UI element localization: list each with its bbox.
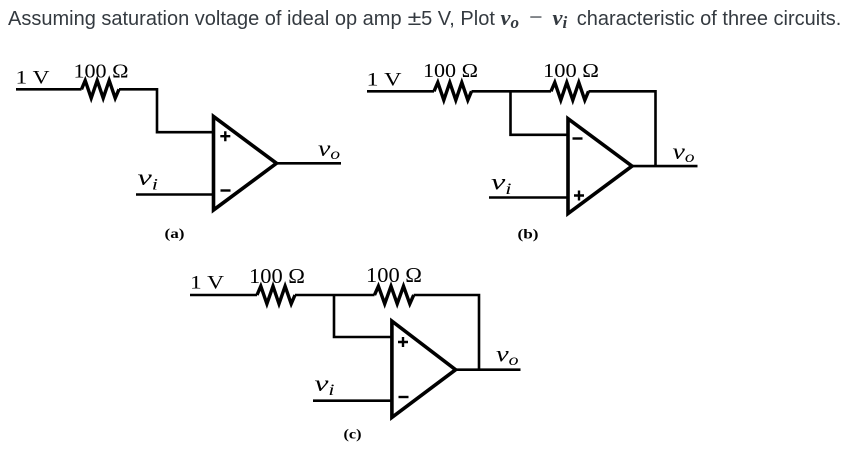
svg-text:vi: vi [491,169,512,198]
svg-text:(b): (b) [518,228,539,243]
svg-text:100 Ω: 100 Ω [74,60,129,82]
svg-text:100 Ω: 100 Ω [543,60,599,82]
svg-text:100 Ω: 100 Ω [366,263,422,287]
svg-text:(c): (c) [344,428,362,443]
svg-text:1 V: 1 V [16,68,50,89]
svg-text:1 V: 1 V [367,70,402,91]
svg-text:100 Ω: 100 Ω [249,264,305,288]
svg-text:vi: vi [138,165,159,194]
svg-text:1 V: 1 V [190,273,224,294]
svg-text:100 Ω: 100 Ω [423,60,478,82]
svg-text:vi: vi [315,371,335,399]
svg-text:vo: vo [318,136,340,163]
svg-text:vo: vo [496,342,519,370]
svg-text:(a): (a) [165,227,185,242]
svg-text:vo: vo [673,139,695,166]
